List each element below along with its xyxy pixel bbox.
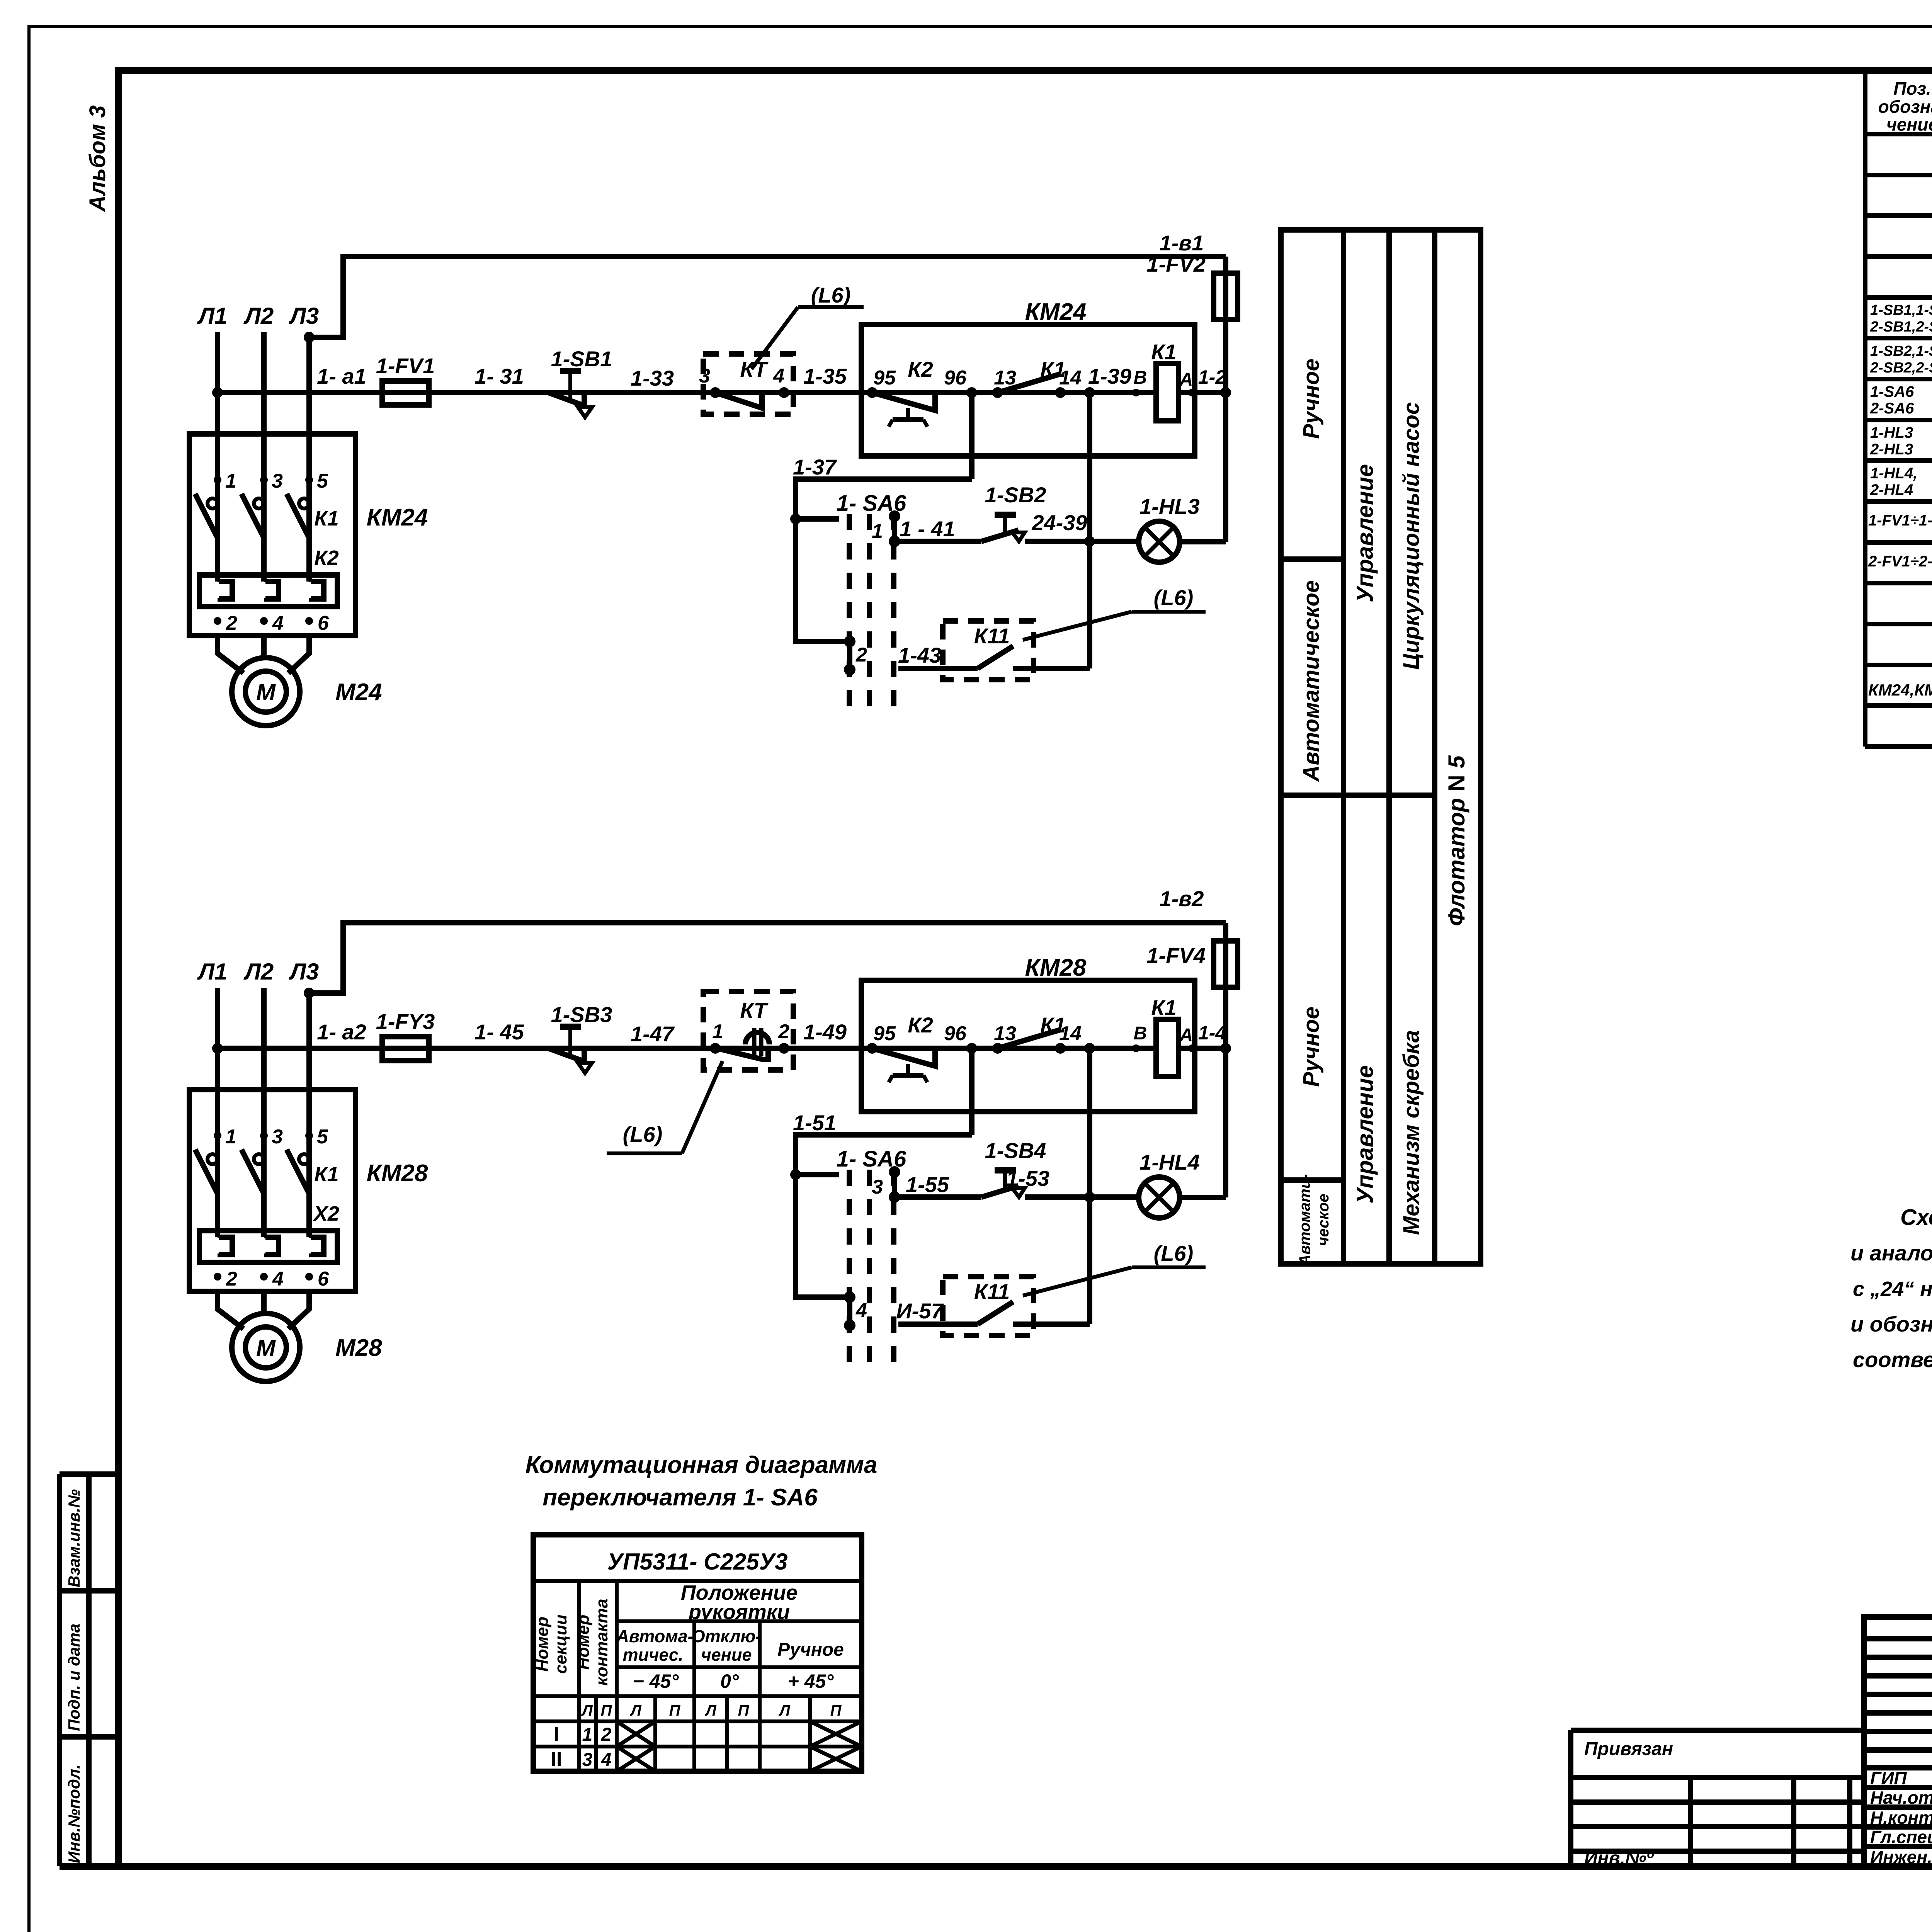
svg-text:4: 4 xyxy=(773,365,784,387)
svg-text:Инжен.: Инжен. xyxy=(1870,1847,1932,1867)
svg-text:УП5311- С225У3: УП5311- С225У3 xyxy=(607,1549,788,1575)
svg-text:3: 3 xyxy=(699,365,710,387)
svg-text:Л: Л xyxy=(778,1702,791,1719)
contactor power box КМ24 xyxy=(189,434,428,636)
wire control bus 1- а2 xyxy=(212,1043,1231,1054)
node (L6) reference at К11 xyxy=(1023,1241,1206,1296)
svg-text:К2: К2 xyxy=(314,546,338,570)
node (L6) reference at КТ xyxy=(752,283,864,369)
svg-text:1- 45: 1- 45 xyxy=(474,1020,524,1044)
thermal relay contact К2 (95-96) xyxy=(867,1013,977,1082)
wire phase Л2 xyxy=(261,332,267,582)
wire branch to lamp circuit xyxy=(1084,387,1095,668)
signature rows xyxy=(1870,1768,1932,1867)
wire phase Л1 xyxy=(215,988,220,1237)
svg-text:1-в2: 1-в2 xyxy=(1160,886,1204,911)
svg-text:1-SB2: 1-SB2 xyxy=(985,483,1046,507)
svg-text:1-FV2: 1-FV2 xyxy=(1147,252,1206,276)
svg-text:II: II xyxy=(551,1748,562,1770)
svg-text:Флотатор N 5: Флотатор N 5 xyxy=(1444,755,1469,926)
X mark row II manual xyxy=(810,1747,862,1771)
switching diagram table xyxy=(533,1535,862,1771)
selector switch 1-SA6 section 2 xyxy=(844,636,867,675)
svg-text:М24: М24 xyxy=(335,679,382,706)
svg-text:тичес.: тичес. xyxy=(623,1645,684,1665)
svg-text:чение: чение xyxy=(701,1645,752,1665)
svg-text:(L6): (L6) xyxy=(623,1122,663,1146)
svg-text:и аналогична для других с з: и аналогична для других с заменой в обоз… xyxy=(1850,1241,1932,1265)
svg-text:Нач.отд.: Нач.отд. xyxy=(1870,1787,1932,1808)
contactor main contact pole 1-2 xyxy=(195,1126,236,1194)
table row 2-FV1 Вставка ВТФ-6 xyxy=(1868,553,1932,580)
svg-text:обозна-: обозна- xyxy=(1878,97,1932,117)
contactor main contact pole 5-6 xyxy=(287,1126,328,1194)
svg-text:95: 95 xyxy=(873,1022,896,1045)
svg-text:П: П xyxy=(738,1702,750,1719)
svg-text:Х2: Х2 xyxy=(313,1202,339,1225)
svg-text:95: 95 xyxy=(873,367,896,389)
fuse 1-FV1 xyxy=(376,354,435,405)
svg-text:А: А xyxy=(1179,1025,1193,1046)
svg-text:Номер: Номер xyxy=(533,1617,552,1672)
svg-text:2: 2 xyxy=(226,1268,237,1290)
svg-text:Привязан: Привязан xyxy=(1584,1739,1673,1759)
classification table grid xyxy=(1281,230,1481,1264)
title block grid xyxy=(1864,1617,1932,1866)
svg-text:КМ24: КМ24 xyxy=(1025,299,1087,325)
svg-text:Л1: Л1 xyxy=(197,959,228,985)
svg-text:1: 1 xyxy=(582,1725,593,1745)
svg-text:3: 3 xyxy=(872,1176,883,1198)
svg-text:с „24“ на „17” ,„12” ,„7” и с: с „24“ на „17” ,„12” ,„7” и с „28” на „2… xyxy=(1853,1277,1932,1301)
wire phase Л3 xyxy=(306,988,312,1237)
svg-text:1-FV1: 1-FV1 xyxy=(376,354,435,378)
junction lamp line xyxy=(1084,536,1095,547)
svg-text:4: 4 xyxy=(855,1299,867,1322)
contactor main contact pole 3-4 xyxy=(241,470,283,538)
wire feeder to control rail xyxy=(304,923,1226,998)
svg-text:96: 96 xyxy=(944,367,967,389)
svg-text:Подп. и дата: Подп. и дата xyxy=(65,1624,83,1731)
table header Поз.обозначение xyxy=(1878,78,1932,134)
table row 1-SB1 исполнение 5 красный xyxy=(1870,302,1932,337)
contactor control box КМ24 xyxy=(861,299,1195,456)
contactor main contact pole 1-2 xyxy=(195,470,236,538)
svg-text:соответственно и щита AS2: соответственно и щита AS2 на AS3 , xyxy=(1853,1347,1932,1372)
svg-text:1-HL4: 1-HL4 xyxy=(1139,1150,1200,1174)
svg-text:24-39: 24-39 xyxy=(1031,510,1087,535)
svg-text:6: 6 xyxy=(318,1268,329,1290)
contactor main contact pole 5-6 xyxy=(287,470,328,538)
svg-text:1-35: 1-35 xyxy=(803,364,847,388)
contactor power box КМ28 xyxy=(189,1090,428,1291)
svg-text:(L6): (L6) xyxy=(811,283,851,307)
thermal relay contact К2 (95-96) xyxy=(867,357,977,427)
svg-text:и обозначения аппаратуры ин: и обозначения аппаратуры индекс „1“ и„2”… xyxy=(1850,1312,1932,1336)
svg-text:14: 14 xyxy=(1059,1022,1082,1045)
svg-text:переключателя 1- SA6: переключателя 1- SA6 xyxy=(543,1484,818,1511)
svg-text:КТ: КТ xyxy=(740,998,769,1022)
pushbutton 1-SB4 xyxy=(895,1138,1139,1197)
wire branch to lamp circuit xyxy=(1084,1043,1095,1324)
svg-text:2-HL4: 2-HL4 xyxy=(1870,481,1913,498)
svg-text:1-HL3: 1-HL3 xyxy=(1139,494,1200,519)
contactor terminal 2 xyxy=(214,1268,237,1290)
svg-text:1-33: 1-33 xyxy=(631,366,674,390)
note text xyxy=(1850,1205,1932,1372)
thermal overload relay elements xyxy=(199,1231,337,1262)
svg-text:Схема управления выполнена: Схема управления выполнена для одного фл… xyxy=(1900,1205,1932,1230)
svg-text:6: 6 xyxy=(318,612,329,634)
svg-text:1-SB2,1-SB4: 1-SB2,1-SB4 xyxy=(1870,343,1932,359)
svg-text:1-4: 1-4 xyxy=(1198,1022,1226,1044)
thermal overload relay elements xyxy=(199,575,337,607)
svg-text:Коммутационная диаграмма: Коммутационная диаграмма xyxy=(526,1452,878,1478)
svg-text:КМ28: КМ28 xyxy=(1025,954,1087,981)
svg-text:Гл.спец.: Гл.спец. xyxy=(1870,1827,1932,1847)
svg-text:1-SA6: 1-SA6 xyxy=(1870,383,1914,400)
junction lamp line xyxy=(1084,1192,1095,1202)
auxiliary contact К1 (13-14) xyxy=(992,357,1082,398)
svg-text:Инв.№º: Инв.№º xyxy=(1584,1848,1654,1869)
svg-text:Инв.№подл.: Инв.№подл. xyxy=(65,1764,83,1863)
fuse 1-FV4 xyxy=(1147,923,1238,1048)
svg-text:(L6): (L6) xyxy=(1154,585,1194,610)
svg-text:Л3: Л3 xyxy=(289,959,319,985)
svg-text:Л2: Л2 xyxy=(243,303,274,329)
svg-text:М: М xyxy=(256,679,276,705)
svg-text:К1: К1 xyxy=(314,507,338,530)
svg-text:Л: Л xyxy=(629,1702,642,1719)
fuse 1-FY3 xyxy=(376,1009,435,1061)
svg-text:И-57: И-57 xyxy=(896,1299,944,1323)
left margin column block xyxy=(60,1474,119,1866)
contactor control box КМ28 xyxy=(861,954,1195,1112)
header Автоматичес. xyxy=(616,1626,693,1665)
svg-text:Л1: Л1 xyxy=(197,303,228,329)
svg-text:96: 96 xyxy=(944,1022,967,1045)
svg-text:2-HL3: 2-HL3 xyxy=(1870,441,1913,458)
motor М24 xyxy=(218,636,382,726)
svg-text:1-51: 1-51 xyxy=(793,1111,836,1135)
svg-text:К11: К11 xyxy=(974,624,1010,648)
subheader Л П row xyxy=(581,1702,842,1719)
table row 1-FV1 Предохранитель ППТ-10У3 xyxy=(1868,512,1932,542)
svg-text:Управление: Управление xyxy=(1352,464,1378,602)
svg-text:(L6): (L6) xyxy=(1154,1241,1194,1265)
svg-text:2-SB2,2-SB4: 2-SB2,2-SB4 xyxy=(1870,360,1932,376)
relay contact К11 xyxy=(898,621,1090,680)
svg-text:КМ24: КМ24 xyxy=(367,504,428,531)
svg-text:1-53: 1-53 xyxy=(1006,1166,1049,1190)
svg-text:Автомати-: Автомати- xyxy=(1296,1174,1313,1266)
row section II contacts 3 4 xyxy=(551,1748,612,1770)
svg-text:Отклю-: Отклю- xyxy=(692,1626,762,1646)
svg-text:1- а2: 1- а2 xyxy=(317,1020,366,1044)
rotated label Автоматическое (bottom) xyxy=(1296,1174,1332,1266)
auxiliary contact К1 (13-14) xyxy=(992,1013,1082,1054)
coil К1 xyxy=(1132,340,1196,421)
node (L6) reference at К11 xyxy=(1023,585,1206,640)
contactor terminal 6 xyxy=(305,612,329,634)
svg-text:4: 4 xyxy=(272,612,284,634)
svg-text:1-55: 1-55 xyxy=(906,1172,949,1197)
contactor terminal 2 xyxy=(214,612,237,634)
привязан table xyxy=(1571,1730,1864,1866)
svg-text:1-SB4: 1-SB4 xyxy=(985,1138,1046,1163)
svg-text:Поз.: Поз. xyxy=(1893,78,1931,99)
wire phase Л2 xyxy=(261,988,267,1237)
contactor terminal 4 xyxy=(260,612,284,634)
wire 1-37 branch xyxy=(793,393,972,641)
svg-text:3: 3 xyxy=(272,470,283,492)
svg-text:1: 1 xyxy=(225,470,236,492)
pushbutton 1-SB2 xyxy=(895,483,1139,541)
svg-text:1- а1: 1- а1 xyxy=(317,364,366,388)
svg-text:Л: Л xyxy=(704,1702,717,1719)
svg-text:1-SB3: 1-SB3 xyxy=(551,1002,612,1027)
lamp 1-HL4 xyxy=(1139,1048,1226,1218)
svg-text:1-в1: 1-в1 xyxy=(1160,231,1204,255)
svg-text:1-HL3: 1-HL3 xyxy=(1870,424,1913,441)
svg-text:1: 1 xyxy=(225,1126,236,1148)
svg-text:5: 5 xyxy=(317,470,328,492)
svg-text:1-2: 1-2 xyxy=(1198,366,1226,388)
svg-text:КТ: КТ xyxy=(740,357,769,381)
svg-text:Циркуляционный насос: Циркуляционный насос xyxy=(1399,402,1424,670)
svg-text:+ 45°: + 45° xyxy=(788,1670,834,1692)
svg-text:Н.контр.: Н.контр. xyxy=(1870,1808,1932,1828)
svg-text:рукоятки: рукоятки xyxy=(688,1600,790,1624)
svg-text:I: I xyxy=(554,1723,559,1745)
table row КМ24 Пускатель магнитный xyxy=(1868,675,1932,701)
svg-text:П: П xyxy=(830,1702,842,1719)
svg-text:2-FV1÷2-FV4: 2-FV1÷2-FV4 xyxy=(1868,553,1932,570)
svg-text:2: 2 xyxy=(601,1725,612,1745)
lamp 1-HL3 xyxy=(1139,393,1226,562)
svg-text:В: В xyxy=(1134,367,1147,388)
svg-text:В: В xyxy=(1134,1023,1147,1044)
table row 1-HL3 Арматура АС 1201ЗУ2 380В xyxy=(1870,424,1932,460)
table row 1-SA6 Переключатель УП5311-С225У5 xyxy=(1870,383,1932,419)
svg-text:1-37: 1-37 xyxy=(793,455,837,479)
svg-text:Ручное: Ручное xyxy=(1299,359,1324,439)
svg-text:чение: чение xyxy=(1886,114,1932,134)
svg-text:Автома-: Автома- xyxy=(616,1626,693,1646)
svg-text:Альбом 3: Альбом 3 xyxy=(85,105,110,212)
svg-text:1-HL4,: 1-HL4, xyxy=(1870,465,1917,482)
component list table grid xyxy=(1865,71,1932,747)
svg-text:КМ28: КМ28 xyxy=(367,1160,428,1187)
svg-text:К11: К11 xyxy=(974,1279,1010,1304)
svg-text:М28: М28 xyxy=(335,1335,382,1361)
svg-text:К1: К1 xyxy=(1151,995,1177,1020)
svg-text:1-FV4: 1-FV4 xyxy=(1147,943,1206,968)
contactor main contact pole 3-4 xyxy=(241,1126,283,1194)
svg-text:1-FV1÷1-FV4: 1-FV1÷1-FV4 xyxy=(1868,512,1932,529)
wire 1-51 branch xyxy=(793,1048,972,1297)
svg-text:К1: К1 xyxy=(1151,340,1177,364)
svg-text:1- 31: 1- 31 xyxy=(474,364,524,388)
svg-text:1-FY3: 1-FY3 xyxy=(376,1009,435,1034)
header Положение рукоятки xyxy=(681,1581,798,1624)
row section I contacts 1 2 xyxy=(554,1723,612,1745)
selector switch 1-SA6 section 1 xyxy=(790,491,906,708)
svg-text:М: М xyxy=(256,1335,276,1361)
wire feeder to control rail xyxy=(304,257,1226,343)
svg-text:− 45°: − 45° xyxy=(633,1670,679,1692)
svg-text:1-SB1: 1-SB1 xyxy=(551,347,612,371)
svg-text:Л2: Л2 xyxy=(243,959,274,985)
selector switch 1-SA6 section 4 xyxy=(844,1291,867,1331)
table row 1-SB2 исполнение 4 черный xyxy=(1870,343,1932,378)
svg-text:0°: 0° xyxy=(720,1670,739,1692)
contactor terminal 4 xyxy=(260,1268,284,1290)
relay contact К11 xyxy=(898,1277,1090,1335)
svg-text:КМ24,КМ28: КМ24,КМ28 xyxy=(1868,681,1932,699)
svg-text:1-SB1,1-SB3: 1-SB1,1-SB3 xyxy=(1870,302,1932,318)
svg-text:1-49: 1-49 xyxy=(803,1020,847,1044)
time relay contact КТ (3-4) xyxy=(699,354,793,414)
svg-text:14: 14 xyxy=(1059,367,1082,389)
X mark row I manual xyxy=(810,1721,862,1747)
pushbutton 1-SB3 xyxy=(548,1002,612,1073)
svg-text:1-39: 1-39 xyxy=(1088,364,1131,388)
svg-text:1: 1 xyxy=(872,520,883,543)
svg-text:К1: К1 xyxy=(314,1163,338,1186)
svg-text:Номер: Номер xyxy=(574,1615,593,1670)
svg-text:Л: Л xyxy=(581,1702,593,1719)
svg-text:секции: секции xyxy=(551,1614,570,1674)
contactor terminal 6 xyxy=(305,1268,329,1290)
switching diagram title xyxy=(526,1452,878,1511)
svg-text:2-SB1,2-SB3: 2-SB1,2-SB3 xyxy=(1870,319,1932,335)
svg-text:4: 4 xyxy=(272,1268,284,1290)
svg-text:2: 2 xyxy=(226,612,237,634)
svg-text:Л3: Л3 xyxy=(289,303,319,329)
svg-text:контакта: контакта xyxy=(592,1599,611,1685)
svg-text:К2: К2 xyxy=(908,357,933,381)
svg-text:2: 2 xyxy=(778,1020,789,1043)
motor М28 xyxy=(218,1291,382,1381)
svg-text:Механизм скребка: Механизм скребка xyxy=(1399,1030,1424,1235)
wire phase Л1 xyxy=(215,332,220,582)
svg-text:3: 3 xyxy=(272,1126,283,1148)
time relay contact КТ (1-2) xyxy=(703,992,793,1070)
svg-text:Ручное: Ручное xyxy=(777,1639,844,1660)
rotated header Номер контакта xyxy=(574,1599,611,1685)
svg-text:1: 1 xyxy=(712,1020,723,1043)
svg-text:5: 5 xyxy=(317,1126,328,1148)
svg-text:П: П xyxy=(669,1702,681,1719)
svg-text:2-SA6: 2-SA6 xyxy=(1870,400,1914,417)
coil К1 xyxy=(1132,995,1196,1077)
wire control bus 1- а1 xyxy=(212,387,1231,398)
svg-text:ческое: ческое xyxy=(1315,1194,1332,1246)
svg-text:А: А xyxy=(1179,369,1193,390)
table row 1-HL4 зеленый xyxy=(1870,465,1932,498)
svg-text:4: 4 xyxy=(601,1750,612,1770)
node (L6) reference at КТ xyxy=(607,1061,723,1153)
fuse 1-FV2 xyxy=(1147,252,1238,393)
wire phase Л3 xyxy=(306,332,312,582)
svg-text:Взам.инв.№: Взам.инв.№ xyxy=(65,1489,83,1587)
svg-text:ГИП: ГИП xyxy=(1870,1768,1907,1788)
X mark row I auto xyxy=(617,1721,655,1747)
header Отключение xyxy=(692,1626,762,1665)
svg-text:Автоматическое: Автоматическое xyxy=(1299,580,1324,782)
svg-text:К2: К2 xyxy=(908,1013,933,1037)
svg-text:П: П xyxy=(601,1702,612,1719)
X mark row II auto xyxy=(617,1747,655,1771)
selector switch 1-SA6 section 3 xyxy=(790,1146,906,1364)
svg-text:2: 2 xyxy=(855,644,867,666)
svg-text:1 - 41: 1 - 41 xyxy=(900,517,955,541)
rotated header Номер секции xyxy=(533,1614,570,1674)
svg-text:Ручное: Ручное xyxy=(1299,1007,1324,1087)
pushbutton 1-SB1 xyxy=(548,347,612,417)
svg-text:3: 3 xyxy=(582,1750,593,1770)
svg-text:Управление: Управление xyxy=(1352,1065,1378,1204)
svg-text:1-43: 1-43 xyxy=(898,643,941,667)
svg-text:1-47: 1-47 xyxy=(631,1022,675,1046)
